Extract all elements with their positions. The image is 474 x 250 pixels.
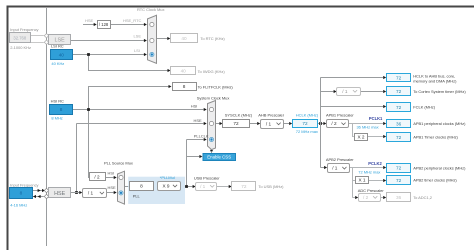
svg-text:Input Frequency: Input Frequency xyxy=(10,182,38,187)
svg-text:USB Prescaler: USB Prescaler xyxy=(194,175,220,180)
svg-text:Input Frequency: Input Frequency xyxy=(10,27,38,32)
svg-text:HSE_RTC: HSE_RTC xyxy=(123,18,141,23)
svg-text:To ADC1,2: To ADC1,2 xyxy=(413,195,433,200)
svg-text:LSI: LSI xyxy=(134,48,140,53)
svg-text:LSE: LSE xyxy=(54,37,65,43)
svg-text:4-16 MHz: 4-16 MHz xyxy=(10,202,27,207)
svg-text:X 9: X 9 xyxy=(162,184,169,189)
svg-text:PCLK2: PCLK2 xyxy=(368,161,382,166)
svg-text:72: 72 xyxy=(396,105,402,110)
svg-text:memory and DMA (MHz): memory and DMA (MHz) xyxy=(413,78,457,83)
svg-text:APB2 timer clocks (MHz): APB2 timer clocks (MHz) xyxy=(413,178,457,183)
svg-text:72: 72 xyxy=(396,76,402,81)
svg-text:72: 72 xyxy=(233,121,239,126)
svg-text:72: 72 xyxy=(396,178,402,183)
svg-text:APB1 Prescaler: APB1 Prescaler xyxy=(326,113,354,118)
svg-text:ADC Prescaler: ADC Prescaler xyxy=(358,188,385,193)
svg-text:40: 40 xyxy=(181,36,187,41)
svg-text:HSE: HSE xyxy=(54,191,65,197)
svg-text:8: 8 xyxy=(140,184,143,189)
svg-text:PCLK1: PCLK1 xyxy=(369,116,383,121)
svg-text:72: 72 xyxy=(302,121,308,126)
svg-text:72: 72 xyxy=(396,166,402,171)
svg-text:X 2: X 2 xyxy=(357,135,364,140)
svg-text:LSE: LSE xyxy=(134,33,142,38)
svg-text:72: 72 xyxy=(396,135,402,140)
svg-text:72: 72 xyxy=(241,184,247,189)
svg-text:RTC Clock Mux: RTC Clock Mux xyxy=(137,7,164,12)
svg-text:System Clock Mux: System Clock Mux xyxy=(197,96,230,101)
svg-text:36 MHz max: 36 MHz max xyxy=(357,125,379,130)
svg-text:HSI RC: HSI RC xyxy=(51,98,64,103)
svg-text:Enable CSS: Enable CSS xyxy=(207,155,231,160)
svg-text:/ 2: / 2 xyxy=(363,195,369,200)
svg-text:/ 1: / 1 xyxy=(88,191,94,196)
svg-text:40 KHz: 40 KHz xyxy=(51,61,64,66)
svg-text:/ 1: / 1 xyxy=(342,89,348,94)
svg-text:8: 8 xyxy=(60,107,63,112)
svg-text:SYSCLK (MHz): SYSCLK (MHz) xyxy=(225,113,253,118)
svg-text:/ 1: / 1 xyxy=(200,184,206,189)
svg-text:/ 128: / 128 xyxy=(99,22,109,27)
svg-text:APB2 peripheral clocks (MHz): APB2 peripheral clocks (MHz) xyxy=(413,166,466,171)
svg-text:72 MHz max: 72 MHz max xyxy=(358,170,380,175)
svg-text:/ 1: / 1 xyxy=(266,121,272,126)
svg-text:To FLITFCLK (MHz): To FLITFCLK (MHz) xyxy=(198,84,234,89)
svg-text:/ 2: / 2 xyxy=(331,121,337,126)
svg-text:X 1: X 1 xyxy=(358,178,365,183)
svg-text:APB1 Timer clocks (MHz): APB1 Timer clocks (MHz) xyxy=(413,135,458,140)
svg-text:40: 40 xyxy=(181,69,187,74)
svg-text:72: 72 xyxy=(396,89,402,94)
svg-text:HSE: HSE xyxy=(108,185,116,190)
svg-text:40: 40 xyxy=(59,53,65,58)
svg-text:To Cortex System timer (MHz): To Cortex System timer (MHz) xyxy=(413,89,466,94)
svg-text:To USB (MHz): To USB (MHz) xyxy=(258,184,284,189)
svg-text:APB2 Prescaler: APB2 Prescaler xyxy=(326,157,354,162)
svg-text:/ 2: / 2 xyxy=(94,175,100,180)
svg-text:/ 1: / 1 xyxy=(332,166,338,171)
svg-text:LSI RC: LSI RC xyxy=(51,44,64,49)
svg-text:36: 36 xyxy=(396,121,402,126)
svg-text:PLL Source Mux: PLL Source Mux xyxy=(104,161,133,166)
svg-text:HSE: HSE xyxy=(194,118,202,123)
svg-text:32.768: 32.768 xyxy=(13,36,26,41)
svg-text:8: 8 xyxy=(183,84,186,89)
svg-text:HSI: HSI xyxy=(108,171,115,176)
svg-text:AHB Prescaler: AHB Prescaler xyxy=(258,113,284,118)
svg-text:HSE: HSE xyxy=(85,18,93,23)
svg-text:APB1 peripheral clocks (MHz): APB1 peripheral clocks (MHz) xyxy=(413,121,466,126)
svg-text:8: 8 xyxy=(20,191,23,196)
svg-text:2-1000 KHz: 2-1000 KHz xyxy=(10,45,31,50)
svg-text:8 MHz: 8 MHz xyxy=(51,116,62,121)
svg-text:To RTC (KHz): To RTC (KHz) xyxy=(200,36,225,41)
svg-text:36: 36 xyxy=(396,195,402,200)
svg-text:*PLLMul: *PLLMul xyxy=(160,175,175,180)
svg-text:FCLK (MHz): FCLK (MHz) xyxy=(413,105,436,110)
svg-text:72 MHz max: 72 MHz max xyxy=(296,129,318,134)
svg-text:HCLK (MHz): HCLK (MHz) xyxy=(296,113,319,118)
svg-text:PLL: PLL xyxy=(133,194,141,199)
svg-text:PLLCLK: PLLCLK xyxy=(194,134,209,139)
svg-text:To IWDG (KHz): To IWDG (KHz) xyxy=(198,69,226,74)
svg-text:HSI: HSI xyxy=(191,104,198,109)
